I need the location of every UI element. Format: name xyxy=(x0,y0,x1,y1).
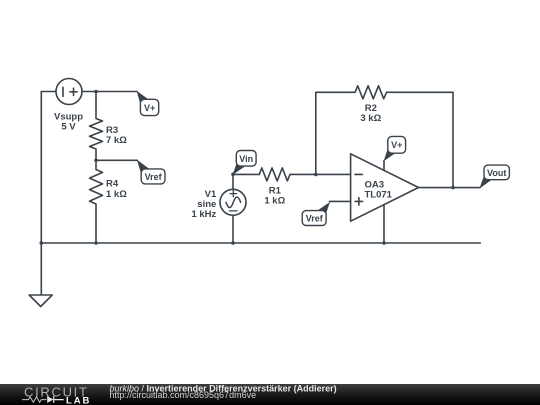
node flag Vref (at op-amp plus input) xyxy=(302,202,330,226)
wire Vin node to R1 xyxy=(233,173,259,175)
svg-text:1 kΩ: 1 kΩ xyxy=(264,196,285,207)
junction output/R2 xyxy=(451,186,455,190)
value label Vsupp 5 V xyxy=(54,112,83,133)
svg-text:LAB: LAB xyxy=(66,395,91,405)
value label R4 1 kOhm xyxy=(106,178,127,199)
wire op-amp plus input xyxy=(329,200,350,202)
svg-text:Vout: Vout xyxy=(487,168,506,178)
junction op-amp V- pin/bus xyxy=(382,241,386,245)
svg-text:3 kΩ: 3 kΩ xyxy=(360,113,381,124)
svg-text:7 kΩ: 7 kΩ xyxy=(106,135,127,146)
voltage source Vsupp xyxy=(56,79,82,105)
wire op-amp output to Vout xyxy=(419,187,480,189)
wire left vertical from Vsupp minus to ground bus xyxy=(40,92,42,244)
svg-text:1 kHz: 1 kHz xyxy=(191,209,216,220)
resistor R2 (feedback) xyxy=(316,86,453,188)
svg-text:TL071: TL071 xyxy=(365,189,393,200)
junction V1/bus xyxy=(231,241,235,245)
wire node Vref (left) xyxy=(96,159,137,161)
op-amp OA3 xyxy=(351,154,419,221)
svg-text:5 V: 5 V xyxy=(61,122,76,133)
wire op-amp V- pin to bus xyxy=(383,205,385,243)
value label R1 1 kOhm xyxy=(264,185,285,206)
svg-text:Vref: Vref xyxy=(306,214,324,224)
node flag Vin xyxy=(233,151,257,175)
value label R3 7 kOhm xyxy=(106,125,127,146)
resistor R1 xyxy=(259,168,350,181)
junction R1/R2/op-amp minus input xyxy=(314,173,318,177)
junction bus/ground xyxy=(40,241,44,245)
wire Vsupp plus to node V+ xyxy=(82,91,137,93)
svg-text:Vin: Vin xyxy=(239,154,253,164)
svg-text:http://circuitlab.com/c8695q67: http://circuitlab.com/c8695q67dm6ve xyxy=(110,390,257,400)
node flag V+ (left) xyxy=(137,91,159,116)
svg-text:R4: R4 xyxy=(106,178,119,189)
wire Vsupp minus lead xyxy=(41,91,56,93)
ground xyxy=(29,243,52,307)
value label V1 sine 1 kHz xyxy=(191,189,217,220)
ground bus wire xyxy=(41,242,480,244)
svg-text:Vref: Vref xyxy=(145,172,163,182)
junction at R3/R4/Vref xyxy=(94,159,98,163)
node flag Vout xyxy=(479,165,509,189)
CircuitLab logo xyxy=(22,384,91,405)
resistor R4 xyxy=(90,160,103,243)
footer bar xyxy=(0,384,540,405)
svg-text:V+: V+ xyxy=(144,103,155,113)
wire op-amp V+ pin xyxy=(383,161,385,171)
resistor R3 xyxy=(90,92,103,161)
svg-text:V+: V+ xyxy=(391,140,402,150)
svg-text:1 kΩ: 1 kΩ xyxy=(106,189,127,200)
junction at Vsupp/R3/V+ xyxy=(94,90,98,94)
junction R4/bus xyxy=(94,241,98,245)
node flag V+ (op-amp positive supply) xyxy=(384,136,406,161)
node flag Vref (left) xyxy=(137,160,165,184)
value label R2 3 kOhm xyxy=(360,103,381,124)
junction V1/Vin/R1 xyxy=(231,173,235,177)
voltage source V1 xyxy=(220,174,246,243)
value label OA3 TL071 xyxy=(365,179,393,200)
